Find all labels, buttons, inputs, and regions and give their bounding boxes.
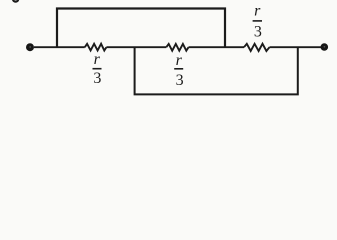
resistor R1: [85, 44, 107, 51]
terminal dot left: [26, 43, 34, 51]
svg-text:3: 3: [93, 70, 101, 87]
label r/3 for R1: [93, 51, 102, 87]
wire: R1 to R2: [106, 46, 166, 48]
wire: top loop (parallel branch over R1 and R2): [57, 9, 225, 48]
wire: left dot to resistor R1: [34, 46, 85, 48]
resistor R2: [166, 44, 188, 51]
svg-text:r: r: [94, 51, 101, 68]
wire: R2 to R3: [189, 46, 245, 48]
wire: R3 to right dot: [270, 46, 322, 48]
wire: bottom loop (parallel branch over R2 and R3): [135, 47, 298, 94]
svg-text:r: r: [254, 3, 261, 20]
cropped glyph at top-left: [12, 0, 19, 3]
svg-text:r: r: [176, 52, 183, 69]
label r/3 for R2: [174, 52, 183, 89]
svg-text:3: 3: [176, 72, 184, 89]
svg-text:3: 3: [254, 24, 262, 41]
terminal dot right: [321, 43, 329, 51]
resistor R3: [244, 44, 270, 51]
label r/3 for R3: [253, 3, 262, 41]
